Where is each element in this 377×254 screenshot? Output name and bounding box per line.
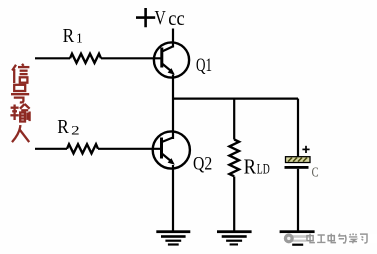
svg-text:R: R bbox=[63, 25, 75, 47]
svg-text:Q2: Q2 bbox=[193, 154, 212, 175]
svg-text:Q1: Q1 bbox=[196, 55, 212, 76]
svg-text:R: R bbox=[57, 116, 69, 138]
svg-text:2: 2 bbox=[71, 122, 80, 137]
svg-text:C: C bbox=[312, 165, 319, 180]
svg-text:cc: cc bbox=[168, 6, 184, 30]
svg-text:1: 1 bbox=[76, 30, 83, 45]
svg-text:LD: LD bbox=[257, 162, 270, 178]
svg-text:V: V bbox=[155, 7, 167, 29]
svg-text:R: R bbox=[244, 155, 256, 179]
